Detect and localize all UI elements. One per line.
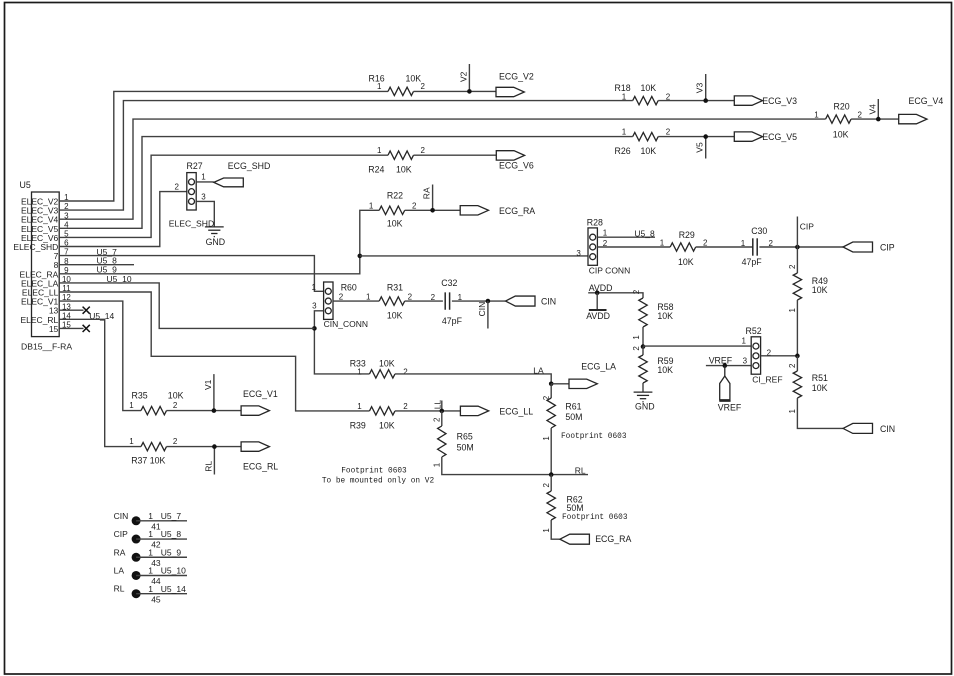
wire junction to R52 pin1 — [643, 345, 751, 347]
net stub RA — [432, 185, 434, 211]
svg-text:6: 6 — [64, 239, 69, 248]
wire LA junction down to R61 — [550, 384, 552, 398]
wire R49 to junction — [796, 300, 798, 356]
port flag ECG_V2 — [496, 87, 524, 96]
junction V3 — [703, 98, 708, 103]
port flag ECG_LL — [460, 406, 488, 415]
svg-text:10K: 10K — [657, 311, 673, 321]
svg-text:12: 12 — [62, 293, 71, 302]
test point LA (44) — [132, 571, 141, 580]
wire U5_7 pin7 to CIN_CONN pin1 — [84, 256, 324, 292]
capacitor C32 — [445, 292, 449, 309]
svg-text:10K: 10K — [812, 383, 828, 393]
junction V4 — [876, 117, 881, 122]
svg-text:CIP CONN: CIP CONN — [589, 265, 630, 275]
wire R27 pin1 to ECG_SHD flag — [196, 181, 214, 183]
port flag ECG_V1 — [241, 406, 269, 415]
svg-text:2: 2 — [858, 110, 863, 119]
svg-text:V5: V5 — [695, 142, 705, 153]
wire ELEC_V1 pin12 to R35 — [84, 301, 142, 411]
wire R27 pin3 to GND — [196, 201, 214, 227]
resistor R49 — [793, 273, 801, 300]
svg-text:1: 1 — [542, 528, 551, 533]
U5 pin 7 stub — [59, 255, 83, 257]
wire R65 to RL row — [442, 457, 588, 475]
svg-text:R51: R51 — [812, 373, 828, 383]
svg-text:CIN: CIN — [880, 424, 895, 434]
svg-text:CIP: CIP — [880, 243, 895, 253]
svg-text:R61: R61 — [565, 401, 581, 411]
connector R60 CIN_CONN — [324, 282, 333, 319]
junction V5 — [703, 134, 708, 139]
svg-text:ECG_V6: ECG_V6 — [499, 160, 534, 170]
port flag ECG_RL — [241, 442, 269, 451]
test point RA (43) — [132, 553, 141, 562]
svg-text:2: 2 — [433, 417, 442, 422]
svg-text:R37 10K: R37 10K — [131, 456, 165, 466]
svg-text:AVDD: AVDD — [586, 311, 610, 321]
svg-text:1: 1 — [369, 202, 374, 211]
svg-text:ECG_V3: ECG_V3 — [762, 96, 797, 106]
svg-text:ECG_SHD: ECG_SHD — [228, 161, 271, 171]
svg-text:1: 1 — [741, 336, 746, 345]
wire R26 to ECG_V5 flag — [658, 136, 734, 138]
svg-text:3: 3 — [64, 211, 69, 220]
svg-text:ECG_LL: ECG_LL — [499, 406, 533, 416]
svg-text:R39: R39 — [350, 421, 366, 431]
svg-text:2: 2 — [412, 202, 417, 211]
svg-text:LL: LL — [433, 400, 443, 410]
resistor R18 — [633, 96, 659, 104]
svg-text:2: 2 — [632, 346, 641, 351]
net stub CIP — [796, 217, 798, 248]
svg-text:ECG_V5: ECG_V5 — [762, 132, 797, 142]
svg-text:C32: C32 — [441, 278, 457, 288]
test point CIP (42) — [132, 535, 141, 544]
svg-text:10K: 10K — [833, 129, 849, 139]
U5 pin 8 stub — [59, 264, 83, 266]
svg-text:10K: 10K — [678, 257, 694, 267]
svg-text:1: 1 — [148, 584, 153, 594]
svg-text:45: 45 — [151, 594, 161, 604]
resistor R26 — [633, 132, 659, 140]
svg-text:R31: R31 — [387, 282, 403, 292]
ground under R59 — [634, 392, 653, 402]
U5 pin 6 stub — [59, 246, 83, 248]
resistor R20 — [826, 115, 852, 123]
wire ELEC_LA pin10 to junction — [84, 283, 315, 329]
resistor R33 — [370, 370, 396, 378]
svg-text:10K: 10K — [657, 365, 673, 375]
svg-text:U5_8: U5_8 — [161, 529, 182, 539]
resistor R37 — [141, 442, 167, 450]
power port VREF — [719, 366, 730, 401]
resistor R24 — [388, 151, 414, 159]
svg-text:1: 1 — [357, 402, 362, 411]
svg-text:1: 1 — [622, 93, 627, 102]
port flag CIN — [506, 296, 536, 306]
svg-text:4: 4 — [64, 220, 69, 229]
test point RL (45) — [132, 589, 141, 598]
resistor R59 — [639, 355, 647, 383]
svg-text:2: 2 — [788, 363, 797, 368]
wire R59 to GND — [642, 383, 644, 392]
wire R18 to ECG_V3 flag — [658, 100, 734, 102]
svg-text:2: 2 — [788, 264, 797, 269]
wire R24 to ECG_V6 flag — [414, 154, 497, 156]
wire R60 pin3 down to R33 — [314, 311, 369, 374]
svg-text:11: 11 — [62, 284, 71, 293]
svg-text:3: 3 — [312, 301, 317, 310]
svg-text:3: 3 — [743, 356, 748, 365]
wire ELEC_V4 pin3 to R20 — [84, 119, 826, 219]
svg-text:1: 1 — [741, 239, 746, 248]
svg-text:13: 13 — [62, 302, 71, 311]
svg-text:2: 2 — [339, 292, 344, 301]
svg-text:RL: RL — [114, 584, 125, 594]
svg-text:U5_10: U5_10 — [161, 566, 186, 576]
connector R27 ELEC_SHD — [187, 173, 196, 210]
svg-text:10K: 10K — [379, 421, 395, 431]
svg-text:U5_7: U5_7 — [161, 511, 182, 521]
svg-text:V2: V2 — [458, 71, 468, 82]
resistor R65 — [438, 426, 446, 457]
no-connect X pin 13 — [83, 307, 90, 314]
junction CIP — [795, 245, 800, 250]
svg-text:CIN: CIN — [114, 511, 129, 521]
U5 pin 15 stub — [59, 327, 83, 329]
port flag ECG_V4 — [899, 114, 927, 123]
svg-text:50M: 50M — [565, 412, 582, 422]
wire ELEC_V5 pin4 to R26 — [84, 137, 633, 229]
svg-text:R52: R52 — [746, 326, 762, 336]
junction RL — [212, 444, 217, 449]
junction R49/R51/R52.2 — [795, 354, 800, 359]
svg-text:15: 15 — [49, 324, 59, 334]
junction V2 — [467, 89, 472, 94]
U5 pin 12 stub — [59, 300, 83, 302]
svg-text:CIP: CIP — [114, 529, 129, 539]
wire R22 to ECG_RA flag — [405, 209, 461, 211]
U5 pin 10 stub — [59, 282, 83, 284]
wire LL junction down to R65 — [441, 411, 443, 426]
svg-text:50M: 50M — [457, 442, 474, 452]
svg-text:R65: R65 — [457, 432, 473, 442]
svg-text:1: 1 — [148, 566, 153, 576]
svg-text:ECG_V2: ECG_V2 — [499, 71, 534, 81]
net stub V2 — [468, 64, 470, 91]
svg-text:1: 1 — [64, 193, 69, 202]
wire R20 to ECG_V4 flag — [851, 118, 899, 120]
port flag ECG_V3 — [734, 96, 762, 105]
junction CIN — [486, 299, 491, 304]
resistor R61 — [547, 398, 555, 428]
svg-text:R60: R60 — [341, 282, 357, 292]
port flag ECG_V6 — [496, 151, 524, 160]
no-connect X pin 15 — [83, 325, 90, 332]
resistor R35 — [141, 406, 167, 414]
U5 pin 3 stub — [59, 218, 83, 220]
wire R61 to RL row — [550, 428, 552, 475]
junction V1 — [212, 408, 217, 413]
svg-text:R35: R35 — [132, 390, 148, 400]
net stub V1 — [213, 374, 215, 411]
wire ELEC_RA pin9 up to R22 — [84, 210, 380, 273]
connector R28 CIP_CONN — [588, 228, 597, 265]
svg-text:10K: 10K — [406, 74, 422, 84]
resistor R51 — [793, 371, 801, 398]
wire R29 to C30 — [696, 246, 753, 248]
svg-text:U5: U5 — [20, 180, 31, 190]
svg-text:1: 1 — [788, 409, 797, 414]
wire C32 to CIN flag — [452, 300, 506, 302]
svg-text:7: 7 — [64, 248, 69, 257]
svg-text:1: 1 — [201, 173, 206, 182]
svg-text:2: 2 — [408, 292, 413, 301]
svg-text:2: 2 — [64, 202, 69, 211]
junction ELEC_LA / R60.3 / R33 — [312, 326, 317, 331]
junction RA — [430, 208, 435, 213]
svg-text:2: 2 — [175, 183, 180, 192]
wire RL junction down to R62 — [550, 475, 552, 491]
svg-text:10K: 10K — [168, 390, 184, 400]
capacitor C30 — [753, 238, 757, 255]
svg-text:ECG_RA: ECG_RA — [595, 534, 631, 544]
junction R58/R59/R52.1 — [641, 344, 646, 349]
U5 pin 13 stub — [59, 309, 83, 311]
wire ELEC_RL pin14 to R37 — [84, 319, 142, 446]
wire R16 to ECG_V2 flag — [414, 90, 497, 92]
resistor R22 — [379, 206, 405, 214]
svg-text:1: 1 — [312, 283, 317, 292]
U5 pin 5 stub — [59, 236, 83, 238]
ground under R27 — [205, 227, 224, 237]
svg-text:1: 1 — [622, 127, 627, 136]
wire AVDD port stub — [596, 293, 598, 310]
svg-text:50M: 50M — [567, 503, 584, 513]
svg-text:LA: LA — [533, 366, 544, 376]
svg-text:RL: RL — [575, 465, 586, 475]
U5 pin 2 stub — [59, 209, 83, 211]
port flag ECG_V5 — [734, 132, 762, 141]
svg-text:10K: 10K — [641, 83, 657, 93]
wire U5_8 pin8 stub — [84, 264, 135, 266]
svg-text:U5_8: U5_8 — [634, 229, 655, 239]
port flag CIP — [843, 242, 873, 252]
svg-text:U5_14: U5_14 — [161, 584, 186, 594]
resistor R58 — [639, 298, 647, 327]
test point CIN (41) — [132, 516, 141, 525]
wire ELEC_V6 pin5 to R24 — [84, 155, 389, 237]
svg-text:1: 1 — [433, 462, 442, 467]
wire LA junction to ECG_LA flag — [551, 383, 569, 385]
wire R31 to C32 — [405, 300, 443, 302]
svg-text:1: 1 — [366, 292, 371, 301]
svg-text:Footprint 0603: Footprint 0603 — [561, 433, 627, 441]
svg-text:14: 14 — [62, 311, 71, 320]
junction RA net at x360 — [358, 254, 363, 259]
svg-text:AVDD: AVDD — [589, 283, 613, 293]
svg-text:V1: V1 — [203, 379, 213, 390]
svg-text:R20: R20 — [834, 101, 850, 111]
net stub V5 — [705, 137, 707, 159]
svg-text:CI_REF: CI_REF — [752, 375, 782, 385]
wire R60 pin2 to R31 — [333, 300, 379, 302]
svg-text:2: 2 — [421, 146, 426, 155]
wire R33 to LA junction — [395, 374, 551, 384]
svg-text:1: 1 — [148, 511, 153, 521]
svg-text:10K: 10K — [812, 285, 828, 295]
svg-text:RA: RA — [422, 187, 432, 199]
svg-text:3: 3 — [201, 192, 206, 201]
net stub V4 — [877, 99, 879, 119]
U5 pin 1 stub — [59, 200, 83, 202]
svg-text:2: 2 — [632, 289, 641, 294]
wire ELEC_V3 pin2 to R18 — [84, 101, 633, 211]
wire AVDD to R58 — [588, 293, 643, 298]
svg-text:CIN: CIN — [477, 302, 487, 317]
svg-text:To be mounted only on V2: To be mounted only on V2 — [322, 477, 435, 485]
svg-text:ECG_LA: ECG_LA — [581, 361, 616, 371]
junction LA — [549, 382, 554, 387]
svg-text:1: 1 — [357, 368, 362, 377]
svg-text:47pF: 47pF — [742, 257, 763, 267]
wire junction down to R51 — [796, 356, 798, 371]
svg-text:RL: RL — [203, 461, 213, 472]
svg-text:R29: R29 — [679, 230, 695, 240]
power port AVDD bar — [589, 309, 607, 311]
svg-text:1: 1 — [632, 335, 641, 340]
svg-text:10K: 10K — [641, 146, 657, 156]
junction AVDD — [595, 291, 600, 296]
U5 pin 14 stub — [59, 318, 83, 320]
svg-text:LA: LA — [114, 565, 125, 575]
svg-text:R27: R27 — [187, 161, 203, 171]
svg-text:2: 2 — [431, 293, 436, 302]
svg-text:1: 1 — [129, 401, 134, 410]
wire R28 pin1 stub U5_8 — [597, 236, 655, 238]
svg-text:VREF: VREF — [718, 402, 742, 412]
svg-text:2: 2 — [403, 402, 408, 411]
svg-text:GND: GND — [635, 402, 655, 412]
svg-text:2: 2 — [421, 82, 426, 91]
resistor R62 — [547, 491, 555, 520]
svg-text:1: 1 — [148, 547, 153, 557]
net stub LL — [441, 401, 443, 411]
wire R58 to junction — [642, 327, 644, 347]
svg-text:CIP: CIP — [800, 222, 815, 232]
wire R52 pin2 to R49/R51 junction — [761, 355, 798, 357]
svg-text:ELEC_SHD: ELEC_SHD — [13, 242, 58, 252]
svg-text:1: 1 — [129, 437, 134, 446]
svg-text:GND: GND — [206, 237, 226, 247]
svg-text:R26: R26 — [615, 146, 631, 156]
svg-text:1: 1 — [148, 529, 153, 539]
svg-text:2: 2 — [173, 437, 178, 446]
svg-text:10K: 10K — [387, 219, 403, 229]
svg-text:1: 1 — [377, 82, 382, 91]
svg-text:VREF: VREF — [709, 356, 733, 366]
connector U5 body — [32, 192, 60, 337]
net stub RL — [213, 447, 215, 475]
port flag ECG_RA — [460, 206, 488, 215]
svg-text:RA: RA — [114, 547, 126, 557]
wire R37 to ECG_RL flag — [167, 446, 242, 448]
svg-text:9: 9 — [64, 266, 69, 275]
svg-text:10: 10 — [62, 275, 71, 284]
svg-text:1: 1 — [660, 238, 665, 247]
svg-text:2: 2 — [666, 127, 671, 136]
svg-text:ECG_RA: ECG_RA — [499, 206, 535, 216]
wire C30 to CIP flag — [759, 246, 843, 248]
resistor R31 — [379, 297, 405, 305]
svg-text:C30: C30 — [751, 226, 767, 236]
svg-text:2: 2 — [703, 238, 708, 247]
svg-text:V4: V4 — [867, 104, 877, 115]
svg-text:2: 2 — [173, 401, 178, 410]
svg-text:Footprint 0603: Footprint 0603 — [562, 514, 628, 522]
net stub CIN — [487, 301, 489, 328]
svg-text:R22: R22 — [387, 191, 403, 201]
svg-text:1: 1 — [603, 228, 608, 237]
U5 pin 11 stub — [59, 291, 83, 293]
svg-text:2: 2 — [542, 483, 551, 488]
svg-text:V3: V3 — [695, 83, 705, 94]
svg-text:1: 1 — [814, 110, 819, 119]
svg-text:R28: R28 — [587, 218, 603, 228]
wire R28 pin2 to R29 — [597, 246, 670, 248]
svg-text:CIN: CIN — [541, 297, 556, 307]
wire RA net to CIP_CONN pin3 — [360, 255, 588, 257]
svg-text:U5_9: U5_9 — [161, 547, 182, 557]
svg-text:8: 8 — [64, 257, 69, 266]
svg-text:1: 1 — [377, 146, 382, 155]
resistor R29 — [670, 243, 696, 251]
svg-text:5: 5 — [64, 230, 69, 239]
svg-text:ECG_V4: ECG_V4 — [909, 96, 944, 106]
wire VREF to R52 pin3 — [706, 365, 751, 367]
svg-text:R18: R18 — [615, 83, 631, 93]
svg-text:ECG_RL: ECG_RL — [243, 462, 278, 472]
wire R35 to ECG_V1 flag — [167, 410, 242, 412]
svg-text:15: 15 — [62, 321, 71, 330]
wire CIP junction down to R49 — [796, 247, 798, 273]
U5 pin 9 stub — [59, 273, 83, 275]
svg-text:CIN_CONN: CIN_CONN — [324, 319, 368, 329]
svg-text:R24: R24 — [368, 164, 384, 174]
wire ELEC_SHD pin6 to R27 pin2 — [84, 192, 187, 247]
svg-text:2: 2 — [403, 368, 408, 377]
wire ELEC_LL pin11 to R39 — [84, 292, 370, 411]
junction VREF — [723, 363, 728, 368]
port flag ECG_SHD — [214, 178, 244, 187]
svg-text:1: 1 — [542, 436, 551, 441]
svg-text:10K: 10K — [396, 164, 412, 174]
svg-text:47pF: 47pF — [442, 316, 463, 326]
wire junction down to R59 — [642, 347, 644, 355]
port flag CIN bottom — [843, 423, 873, 433]
svg-text:3: 3 — [576, 249, 581, 258]
U5 pin 4 stub — [59, 227, 83, 229]
svg-text:Footprint 0603: Footprint 0603 — [341, 467, 407, 475]
port flag ECG_RA bottom — [560, 534, 590, 544]
wire ELEC_V2 pin1 to R16 — [84, 91, 389, 201]
resistor R16 — [388, 87, 414, 95]
net stub V3 — [705, 74, 707, 101]
wire R51 to CIN flag — [797, 398, 843, 428]
svg-text:ECG_V1: ECG_V1 — [243, 389, 278, 399]
wire R62 to ECG_RA flag — [551, 520, 560, 539]
